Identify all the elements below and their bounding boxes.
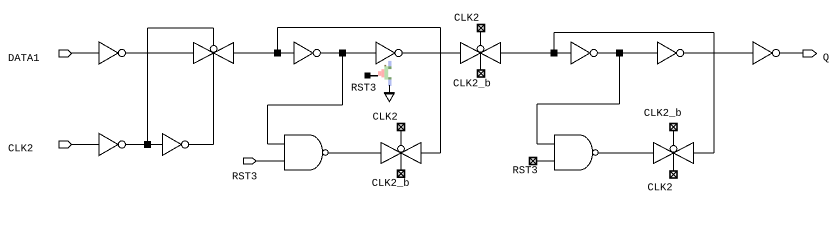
transmission gate TG3 <box>381 143 421 164</box>
node J3 <box>551 50 558 57</box>
node J4 <box>616 50 623 57</box>
input pin RST3 <box>244 158 257 164</box>
label DATA1 <box>9 54 39 61</box>
wire DATA1 pin to U1 <box>72 52 99 54</box>
nand gate NAND2 <box>555 135 599 170</box>
wire U2 to U3 <box>320 52 375 54</box>
connector CLK2 (TG2 top) <box>478 25 485 32</box>
label CLK2 (TG2 top) <box>455 14 479 21</box>
label Q <box>823 53 828 62</box>
connector CLK2 (TG3 top) <box>398 124 405 131</box>
wire TG2 control <box>480 32 482 70</box>
wire TG4 control <box>673 131 675 171</box>
input pin CLK2 <box>59 141 72 148</box>
wire into NAND2 input A <box>537 143 555 145</box>
wire TG2 to U4 <box>501 52 572 54</box>
wire master feedback right vertical <box>439 28 441 154</box>
wire feedback left vertical to NAND1 <box>266 105 268 144</box>
node J1 <box>274 50 281 57</box>
label CLK2_b (TG3 bottom) <box>372 178 409 187</box>
wire feedback mid horizontal <box>267 104 342 106</box>
wire U1 to TG1 <box>126 52 194 54</box>
connector RST3 (slave) <box>530 158 537 165</box>
wire slave feedback top <box>554 32 714 34</box>
wire U7 to U8 <box>126 144 163 146</box>
wire TG3 control <box>400 131 402 170</box>
nand gate NAND1 <box>285 135 329 170</box>
node RST3 gate stub <box>365 73 371 79</box>
label CLK2 (clock input) <box>9 144 33 151</box>
inverter U5 <box>657 42 683 64</box>
wire U8 to TG1 bottom control <box>189 144 214 146</box>
wire U4 to U5 <box>597 52 657 54</box>
label CLK2_b (TG4 top) <box>644 108 681 117</box>
wire RST3 pin to NAND1 input B <box>256 160 284 162</box>
wire feedback top left <box>147 27 213 29</box>
label RST3 (reset transistor) <box>352 84 376 91</box>
inverter U8 <box>162 134 188 156</box>
node J5 (clk_b) <box>144 141 151 148</box>
wire slave feedback left vertical to NAND2 <box>536 104 538 144</box>
wire NAND1 to TG3 <box>328 152 381 154</box>
wire master feedback top <box>278 27 441 29</box>
transmission gate TG2 <box>461 43 501 64</box>
inverter U1 <box>99 42 125 64</box>
inverter U7 <box>99 134 125 156</box>
transistor M1 bulk tick <box>384 65 386 67</box>
wire J3 up <box>553 33 555 54</box>
wire J2 down <box>342 53 344 105</box>
transmission gate TG4 <box>654 143 694 164</box>
connector CLK2 (TG4 bottom) <box>670 171 677 178</box>
wire slave feedback mid horizontal <box>537 103 620 105</box>
label CLK2 (TG4 bottom) <box>648 183 672 190</box>
label RST3 (master reset input) <box>233 172 257 179</box>
wire U6 to Q pin <box>780 52 803 54</box>
inverter U4 <box>571 42 597 64</box>
wire RST3 stub to gate <box>371 75 378 77</box>
wire J4 down <box>619 53 621 104</box>
wire TG4 to slave feedback vertical <box>694 152 715 154</box>
output pin Q <box>803 50 817 57</box>
connector CLK2_b (TG3 bottom) <box>398 170 405 177</box>
connector CLK2_b (TG4 top) <box>670 124 677 131</box>
ground <box>384 85 395 101</box>
label RST3 (slave reset) <box>513 166 537 173</box>
node J2 <box>339 50 346 57</box>
wire U5 to U6 <box>684 52 753 54</box>
transistor M1 gate poly (pink) <box>378 69 384 77</box>
wire TG3 to master feedback vertical <box>421 152 440 154</box>
wire J1 up <box>277 28 279 54</box>
inverter U3 <box>376 42 402 64</box>
wire CLK2 pin to U7 <box>72 144 99 146</box>
transmission gate TG1 <box>194 43 234 64</box>
transistor M1 source metal (blue) <box>388 80 391 86</box>
inverter U6 <box>753 42 779 64</box>
transistor M1 drain metal (blue) <box>388 61 391 66</box>
wire into NAND1 input A <box>267 143 284 145</box>
label CLK2 (TG3 top) <box>373 113 397 120</box>
label CLK2_b (TG2 bottom) <box>454 79 491 88</box>
input pin DATA1 <box>59 50 72 57</box>
inverter U2 <box>294 42 320 64</box>
wire NAND2 to TG4 <box>598 152 653 154</box>
wire RST3 connector to NAND2 input B <box>537 160 555 162</box>
wire U3 to TG2 <box>402 52 460 54</box>
connector CLK2_b (TG2 bottom) <box>478 70 485 77</box>
transistor M1 channel (green) <box>384 66 391 79</box>
wire TG1 to U2 <box>234 52 294 54</box>
wire TG1 control vertical <box>213 28 215 145</box>
wire feedback vertical left (clk_b up) <box>146 28 148 145</box>
wire slave feedback right vertical <box>713 33 715 154</box>
